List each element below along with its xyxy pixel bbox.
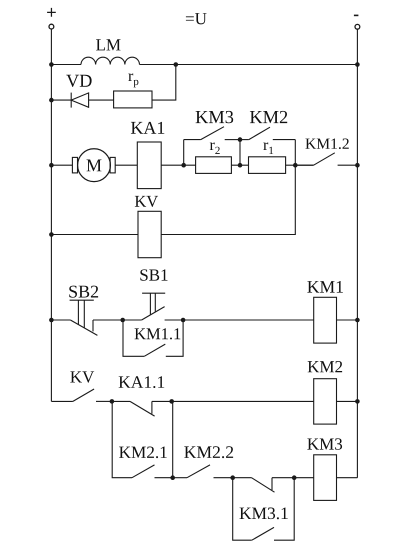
contact KV (NO) [51, 371, 112, 401]
relay coil KM1 [307, 281, 343, 343]
contact KA1.1 (NC) [112, 376, 172, 416]
wire: bypass right vertical [294, 140, 296, 166]
node: junction bypass KM3 / KM2 [238, 137, 243, 142]
wire: left supply rail [50, 29, 52, 401]
node: junction motor row / right rail [355, 163, 360, 168]
node: junction left rail / VD branch [49, 98, 54, 103]
motor M [72, 149, 115, 182]
relay coil KA1 [131, 122, 164, 189]
contact KM2.1 (NO, parallel branch) [112, 401, 173, 477]
contact KM2 (NO, shorts r1) [240, 111, 295, 140]
node: junction LM output / rp branch [174, 62, 179, 67]
relay coil KM2 [308, 361, 342, 424]
node: junction KA1 output / bypass branch [181, 163, 186, 168]
node: junction KM2 row / right rail [355, 399, 360, 404]
wire: motor to KA1 [115, 164, 137, 166]
pushbutton SB1 (NO) [123, 269, 183, 320]
wire: r1 to KM1.2 [286, 164, 314, 166]
wire: top rail right segment [140, 64, 358, 66]
wire: SB1 node to KM1 coil [183, 319, 314, 321]
relay coil KV [135, 196, 161, 258]
terminal + (positive supply) [47, 8, 56, 29]
label =U (supply voltage) [186, 13, 207, 24]
wire: left rail to motor [51, 164, 72, 166]
contact KM1.1 (NO, latch around SB1) [123, 320, 183, 356]
pushbutton SB2 (NC) [51, 286, 122, 336]
contact KM1.2 (NO) [295, 138, 357, 165]
resistor r2 [196, 142, 232, 173]
node: junction KV contact / KA1.1 / KM2.1 [110, 399, 115, 404]
wire: KA1 to r2 [161, 164, 195, 166]
relay coil KM3 [307, 438, 342, 500]
wire: bypass mid vertical [239, 140, 241, 166]
wire: left rail to VD [51, 99, 71, 101]
wire: KM3 node to KM3 coil [294, 477, 314, 479]
node: junction KA1.1 / KM2.1 / KM2 coil [169, 399, 174, 404]
node: junction r2 / r1 [238, 163, 243, 168]
inductor LM [81, 39, 139, 64]
terminal - (negative supply) [354, 15, 360, 29]
node: junction left rail / LM [49, 62, 54, 67]
wire: KA1.1 node to KM2 coil [172, 400, 314, 402]
contact (NC) in KM3 branch [233, 478, 295, 493]
resistor rp [114, 73, 152, 107]
wire: top rail left segment [51, 64, 81, 66]
contact KM2.2 (NO) [173, 446, 233, 477]
node: junction NC contact / KM3.1 loop / KM3 coil [292, 475, 297, 480]
wire: right supply rail [356, 29, 358, 477]
wire: bypass branch left vertical [183, 140, 185, 166]
node: junction left rail / KV row [49, 232, 54, 237]
node: junction SB1 / KM1.1 / KM1 coil [181, 318, 186, 323]
wire: KM2.1 right vertical [172, 401, 174, 477]
wire: VD to rp [89, 99, 114, 101]
wire: r2 to r1 [231, 164, 248, 166]
contact KM3 (NO, shorts r2) [184, 111, 240, 140]
contact KM3.1 (NO, parallel branch) [233, 478, 295, 541]
node: junction KM2.1 / KM2.2 [170, 475, 175, 480]
wire: KM3 to right rail [337, 477, 358, 479]
node: junction top rail / right rail [355, 62, 360, 67]
node: junction KM1 row / right rail [355, 318, 360, 323]
node: junction left rail / SB2 row [49, 318, 54, 323]
resistor r1 [249, 142, 286, 173]
wire: rp up to LM output node [152, 65, 176, 101]
node: junction left rail / motor row [49, 163, 54, 168]
wire: KV to r1 node [161, 165, 295, 234]
node: junction r1 / KV branch / KM1.2 [293, 163, 298, 168]
diode VD [66, 75, 91, 108]
node: junction KM2.2 / NC contact / KM3.1 loop [230, 475, 235, 480]
wire: KM2 to right rail [337, 400, 358, 402]
wire: KM1 to right rail [337, 319, 358, 321]
node: junction SB2 / SB1 / KM1.1 [120, 318, 125, 323]
wire: left rail to KV [51, 234, 138, 236]
